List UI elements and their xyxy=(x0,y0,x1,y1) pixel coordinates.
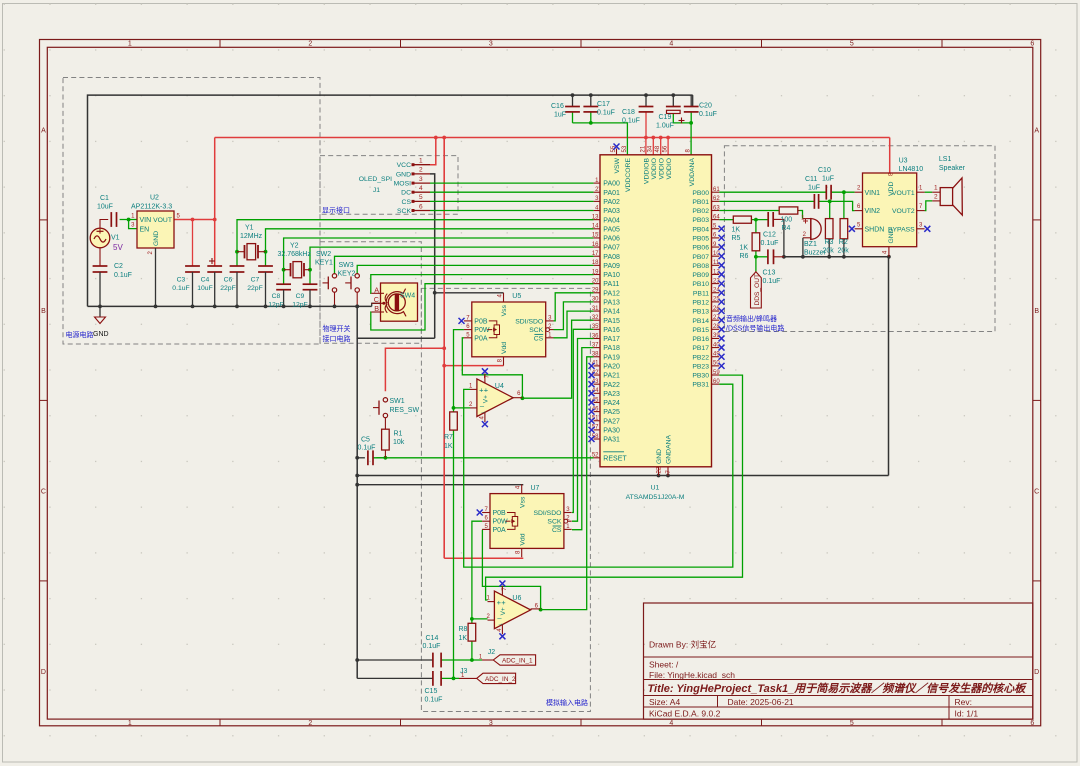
svg-text:PA09: PA09 xyxy=(603,263,620,270)
wire U5 P0W to U4 inverting and R7 xyxy=(454,330,471,408)
svg-text:PA04: PA04 xyxy=(603,217,620,224)
svg-text:PA15: PA15 xyxy=(603,318,620,325)
svg-text:C: C xyxy=(1034,489,1039,496)
wire GND drop from C12 xyxy=(783,219,785,256)
svg-text:+: + xyxy=(484,386,489,395)
svg-text:C: C xyxy=(374,295,379,304)
svg-text:Date: 2025-06-21: Date: 2025-06-21 xyxy=(728,697,794,707)
junction GND at C2 xyxy=(98,305,102,309)
junction decoupling C20 xyxy=(689,121,693,125)
svg-text:SDI/SDO: SDI/SDO xyxy=(515,318,543,325)
svg-text:File: YingHe.kicad_sch: File: YingHe.kicad_sch xyxy=(649,670,735,680)
svg-text:PA20: PA20 xyxy=(603,364,620,371)
svg-text:6: 6 xyxy=(1030,720,1034,727)
svg-text:PB15: PB15 xyxy=(692,327,709,334)
capacitor C10 xyxy=(818,167,834,200)
svg-text:RES_SW: RES_SW xyxy=(390,407,420,414)
wire GND vertical from J1 pin 2 xyxy=(430,174,435,338)
capacitor C14 xyxy=(423,635,442,667)
svg-text:B: B xyxy=(374,304,379,313)
svg-text:1: 1 xyxy=(128,41,132,48)
svg-text:VDD: VDD xyxy=(888,182,895,196)
wire EN branch xyxy=(129,220,137,229)
svg-text:R7: R7 xyxy=(444,434,453,441)
svg-text:J2: J2 xyxy=(488,649,496,656)
wire U7 P0A to U6 output xyxy=(482,530,540,610)
svg-text:VIN1: VIN1 xyxy=(865,190,881,197)
capacitor C18 xyxy=(622,107,653,125)
junction GND at MCU GND pin xyxy=(657,474,661,478)
svg-text:C15: C15 xyxy=(425,688,438,695)
wire U6 output to PA19 xyxy=(539,357,594,610)
wire +3V3 stubs to MCU VDDIO pins xyxy=(644,136,670,155)
svg-text:R1: R1 xyxy=(394,431,403,438)
svg-text:D: D xyxy=(1034,669,1039,676)
svg-text:PA17: PA17 xyxy=(603,336,620,343)
svg-text:R5: R5 xyxy=(732,235,741,242)
resistor R6 1K vertical xyxy=(740,233,760,260)
wire XIN Y1 left to PA04 xyxy=(237,220,594,266)
svg-text:LN4810: LN4810 xyxy=(899,166,924,173)
wire U5 P0A to U4 output xyxy=(462,338,522,398)
svg-text:19: 19 xyxy=(592,269,599,275)
junction GND at C12 drop xyxy=(782,255,786,259)
wire GND to C15 xyxy=(357,677,433,679)
junction DDS node at R5 R6 xyxy=(754,218,758,222)
svg-text:29: 29 xyxy=(592,288,599,294)
svg-text:DC: DC xyxy=(401,190,411,197)
svg-text:VDDIO: VDDIO xyxy=(651,158,658,180)
svg-text:32: 32 xyxy=(592,315,599,321)
wire GND jog to SW4 pin C xyxy=(372,303,381,306)
svg-text:ADC_IN_1: ADC_IN_1 xyxy=(502,658,533,665)
svg-text:0.1uF: 0.1uF xyxy=(597,110,615,117)
svg-text:1: 1 xyxy=(128,720,132,727)
svg-text:R4: R4 xyxy=(782,225,791,232)
junction SW3 GND xyxy=(355,305,359,309)
svg-text:P0A: P0A xyxy=(493,527,507,534)
svg-text:PB01: PB01 xyxy=(692,199,709,206)
svg-text:AP2112K-3.3: AP2112K-3.3 xyxy=(131,204,172,211)
wire +3V3 rail left vertical to U2 VOUT xyxy=(214,138,216,267)
junction GND at U5 Vss branch xyxy=(433,291,437,295)
frame row ticks and labels xyxy=(40,128,1041,677)
svg-text:12pF: 12pF xyxy=(292,302,308,309)
wire VOUT2 to speaker xyxy=(925,201,933,211)
svg-text:SW4: SW4 xyxy=(400,293,415,300)
svg-text:PA10: PA10 xyxy=(603,272,620,279)
wire GND switches down to main rail xyxy=(357,306,435,338)
svg-text:PA00: PA00 xyxy=(603,181,620,188)
svg-text:32.768kHz: 32.768kHz xyxy=(278,251,312,258)
svg-text:Drawn By: 刘宝亿: Drawn By: 刘宝亿 xyxy=(649,640,716,650)
digital potentiometer U7 xyxy=(477,484,572,557)
svg-text:2: 2 xyxy=(308,41,312,48)
svg-text:C8: C8 xyxy=(272,293,281,300)
svg-text:GND: GND xyxy=(656,449,663,464)
junction GND x357 at y484 xyxy=(355,483,359,487)
wire GND branch to U7 Vss xyxy=(357,484,523,486)
svg-text:38: 38 xyxy=(592,352,599,358)
junction GND x357 at C14 line xyxy=(355,658,359,662)
svg-text:34: 34 xyxy=(648,145,654,152)
svg-text:35: 35 xyxy=(592,324,599,330)
wire +3V3 drop to J1 VCC xyxy=(430,138,436,165)
svg-text:SCK: SCK xyxy=(529,327,543,334)
svg-text:1: 1 xyxy=(934,185,938,192)
wire U6 output stub xyxy=(531,608,541,610)
svg-text:3: 3 xyxy=(419,176,423,183)
svg-text:5: 5 xyxy=(850,41,854,48)
note label 音频输出/蜂鸣器/DSS信号输出电路 xyxy=(726,314,784,333)
C19 plus sign xyxy=(679,118,685,124)
wire GND left vertical rail x=357 xyxy=(356,338,358,678)
svg-text:60: 60 xyxy=(713,379,720,385)
svg-text:C4: C4 xyxy=(201,277,210,284)
svg-text:A: A xyxy=(41,128,46,135)
svg-text:C17: C17 xyxy=(597,101,610,108)
wire C10 to U3 VIN1 xyxy=(831,191,855,193)
wire +3V3 branch to SW1 xyxy=(385,348,444,391)
svg-text:DDS_OUT: DDS_OUT xyxy=(754,274,761,306)
svg-text:12MHz: 12MHz xyxy=(240,233,263,240)
svg-text:ADC_IN_2: ADC_IN_2 xyxy=(485,676,516,683)
svg-text:VIN2: VIN2 xyxy=(865,208,881,215)
svg-text:2: 2 xyxy=(934,193,938,200)
MCU U1 ATSAMD51J20A-M body xyxy=(600,155,712,467)
svg-text:P0W: P0W xyxy=(493,519,509,526)
wire SW2 to PA08 xyxy=(335,256,594,273)
svg-text:BZ1: BZ1 xyxy=(804,241,817,248)
capacitor C5 xyxy=(357,437,375,466)
svg-text:PB00: PB00 xyxy=(692,190,709,197)
svg-text:J1: J1 xyxy=(373,187,380,194)
junction +3V3 rail top xyxy=(442,136,446,140)
junction DDS_OUT node xyxy=(754,255,758,259)
svg-text:22pF: 22pF xyxy=(220,285,236,292)
junction GND at MCU GNDANA pin xyxy=(666,474,670,478)
capacitor C9 xyxy=(292,284,317,308)
wire +3V3 branch to U5 Vdd xyxy=(444,365,503,367)
svg-text:U6: U6 xyxy=(512,595,521,602)
svg-text:PB13: PB13 xyxy=(692,309,709,316)
svg-text:PB31: PB31 xyxy=(692,382,709,389)
wire V1 to C1 xyxy=(100,220,108,229)
svg-text:模拟输入电路: 模拟输入电路 xyxy=(546,698,588,707)
svg-text:3: 3 xyxy=(489,41,493,48)
junction U6 pin2 node xyxy=(470,617,474,621)
svg-text:1.0uF: 1.0uF xyxy=(656,123,674,130)
wire C3 top stub xyxy=(192,220,194,267)
capacitor C12 xyxy=(761,212,779,247)
svg-text:15: 15 xyxy=(592,233,599,239)
svg-text:10uF: 10uF xyxy=(197,285,213,292)
rotary switch SW4 xyxy=(371,283,417,321)
svg-text:4: 4 xyxy=(669,720,673,727)
svg-text:PA16: PA16 xyxy=(603,327,620,334)
svg-text:PB11: PB11 xyxy=(693,290,709,297)
svg-text:C13: C13 xyxy=(763,270,776,277)
svg-text:电源电路: 电源电路 xyxy=(66,330,94,339)
svg-text:2: 2 xyxy=(419,167,423,174)
svg-text:0.1uF: 0.1uF xyxy=(172,285,189,292)
wire C1 to U2 VIN xyxy=(120,219,137,221)
svg-text:SCK: SCK xyxy=(547,519,561,526)
svg-text:21: 21 xyxy=(640,145,646,152)
junction RESET at R1 xyxy=(384,456,388,460)
junction U4 output xyxy=(521,396,525,400)
svg-text:CS: CS xyxy=(534,335,544,342)
svg-text:SCK: SCK xyxy=(397,208,411,215)
svg-text:PA21: PA21 xyxy=(603,373,620,380)
svg-text:R6: R6 xyxy=(740,253,749,260)
svg-text:接口电路: 接口电路 xyxy=(323,334,351,343)
svg-text:0.1uF: 0.1uF xyxy=(763,278,781,285)
svg-text:2: 2 xyxy=(308,720,312,727)
svg-text:PB05: PB05 xyxy=(692,236,709,243)
svg-text:C16: C16 xyxy=(551,103,564,110)
wire U7 SCK to PA17 xyxy=(572,339,594,522)
svg-text:10uF: 10uF xyxy=(97,204,113,211)
capacitor C16 xyxy=(551,103,580,119)
capacitor C2 xyxy=(93,263,132,306)
wire Y2 right to PA07 xyxy=(310,247,594,284)
crystal Y1 12MHz xyxy=(237,225,266,260)
svg-text:VDDIO: VDDIO xyxy=(658,158,665,180)
svg-text:PB22: PB22 xyxy=(692,354,709,361)
wire PB30 to U6 noninverting xyxy=(486,375,743,600)
U1 right pins PB00-PB31 xyxy=(692,187,724,389)
capacitor C1 xyxy=(97,195,117,227)
frame column ticks and labels xyxy=(128,40,1035,727)
svg-text:显示接口: 显示接口 xyxy=(322,206,350,215)
GND symbol power area xyxy=(93,306,109,338)
wire C11 to U3 VIN2 xyxy=(819,201,855,210)
wire GND horizontal to MCU GND pins xyxy=(357,475,888,477)
junction GND at R3 xyxy=(827,255,831,259)
svg-text:C6: C6 xyxy=(224,277,233,284)
junction VIN1 R2 tap xyxy=(842,190,846,194)
svg-text:C12: C12 xyxy=(763,232,776,239)
wire ADC_IN_2 node xyxy=(441,677,459,679)
svg-text:PA02: PA02 xyxy=(603,199,620,206)
svg-text:SDI/SDO: SDI/SDO xyxy=(533,510,561,517)
svg-text:B: B xyxy=(41,308,46,315)
svg-text:V1: V1 xyxy=(111,235,120,242)
resistor R1 10k xyxy=(382,429,405,458)
svg-text:MOSI: MOSI xyxy=(394,181,411,188)
svg-text:C19: C19 xyxy=(659,114,672,121)
svg-text:C1: C1 xyxy=(100,195,109,202)
wire R5 to node xyxy=(751,219,768,221)
svg-text:Vss: Vss xyxy=(519,496,526,508)
svg-text:16: 16 xyxy=(592,242,599,248)
junction +3V3 at U5 Vdd branch xyxy=(442,364,446,368)
wire R6 bottom to C13 and DDS_OUT xyxy=(756,251,768,272)
svg-text:30: 30 xyxy=(592,297,599,303)
regulator U2 AP2112K-3.3 xyxy=(131,195,181,307)
svg-text:PB30: PB30 xyxy=(692,373,709,380)
svg-text:64: 64 xyxy=(713,214,720,220)
wire R6 top stub xyxy=(755,220,757,233)
wire GND stubs to C16-C20 tops xyxy=(573,95,692,106)
svg-text:SW2: SW2 xyxy=(316,251,331,258)
svg-text:C9: C9 xyxy=(296,293,305,300)
svg-text:B: B xyxy=(1034,308,1039,315)
svg-text:22pF: 22pF xyxy=(247,285,263,292)
svg-text:0.1uF: 0.1uF xyxy=(423,643,441,650)
svg-text:Y1: Y1 xyxy=(245,225,254,232)
svg-text:A: A xyxy=(1034,128,1039,135)
wire RESET net C5 R1 to MCU xyxy=(373,457,594,459)
amplifier U3 LN4810 xyxy=(849,158,930,257)
svg-text:Vss: Vss xyxy=(501,304,508,316)
svg-text:PA13: PA13 xyxy=(603,300,620,307)
svg-text:PB23: PB23 xyxy=(692,363,709,370)
svg-text:0.1uF: 0.1uF xyxy=(358,445,376,452)
svg-text:1uF: 1uF xyxy=(554,112,566,119)
wire XOUT Y1 right to PA05 xyxy=(266,229,594,266)
wire +3V3 vertical rail x=444 xyxy=(443,138,445,559)
junction U6 output xyxy=(539,608,543,612)
svg-text:0.1uF: 0.1uF xyxy=(425,697,443,704)
wire J1 DC to PA01 xyxy=(430,191,594,193)
svg-text:D: D xyxy=(41,669,46,676)
svg-text:PA22: PA22 xyxy=(603,382,620,389)
capacitor C6 xyxy=(220,266,244,306)
junction Y2 right xyxy=(308,268,312,272)
capacitor C19 polarized xyxy=(656,107,681,130)
svg-text:1uF: 1uF xyxy=(808,185,820,192)
wire U7 P0W to U6 inverting and R8 xyxy=(472,521,488,619)
svg-text:6: 6 xyxy=(1030,41,1034,48)
svg-text:1K: 1K xyxy=(444,443,453,450)
svg-text:PB06: PB06 xyxy=(692,245,709,252)
wire GND from C20 corner xyxy=(692,95,694,106)
junction ADC_IN_2 xyxy=(452,677,456,681)
wire PB03 to R5 xyxy=(719,219,733,221)
junction ADC_IN_1 xyxy=(470,658,474,662)
svg-text:RESET: RESET xyxy=(603,455,627,462)
svg-text:C11: C11 xyxy=(805,176,817,183)
U1 RESET pin xyxy=(592,452,628,463)
dashed box power supply region xyxy=(63,78,320,345)
svg-text:12pF: 12pF xyxy=(268,302,284,309)
junction VOUT at C4 xyxy=(213,218,217,222)
svg-text:Rev:: Rev: xyxy=(955,697,972,707)
svg-text:PB03: PB03 xyxy=(692,217,709,224)
svg-text:0.1uF: 0.1uF xyxy=(114,272,132,279)
svg-text:Id: 1/1: Id: 1/1 xyxy=(955,708,979,718)
resistor R7 1K xyxy=(444,412,457,450)
svg-text:PA19: PA19 xyxy=(603,354,620,361)
svg-text:VIN: VIN xyxy=(140,217,152,224)
svg-text:0.1uF: 0.1uF xyxy=(622,118,640,125)
wire GND buzzer pin2 drop xyxy=(803,238,811,257)
wire V1 to C2 xyxy=(99,248,101,266)
svg-text:U2: U2 xyxy=(150,195,159,202)
svg-text:U4: U4 xyxy=(495,383,504,390)
wire VDDCORE decoupling green xyxy=(573,123,628,155)
wire C17 bottom stub xyxy=(590,112,592,123)
wire R2 bottom stub xyxy=(843,239,845,257)
svg-text:5V: 5V xyxy=(113,243,123,252)
capacitor C15 xyxy=(425,671,443,704)
junction GND at U2 xyxy=(154,305,158,309)
wire GND audio area horizontal xyxy=(784,256,889,258)
svg-text:PB09: PB09 xyxy=(692,272,709,279)
capacitor C13 xyxy=(763,249,781,285)
wire C13 right to GND xyxy=(774,256,784,258)
resistor R3 20k xyxy=(823,219,835,255)
junction GND at buzzer drop xyxy=(801,255,805,259)
svg-text:C14: C14 xyxy=(426,635,439,642)
U1 reference and value xyxy=(626,485,685,502)
wire R3 top from VIN2 line xyxy=(829,201,831,218)
buzzer BZ1 xyxy=(801,216,826,257)
svg-text:OLED_SPI: OLED_SPI xyxy=(359,176,392,183)
capacitor C20 xyxy=(684,103,717,119)
wire U5 SCK to PA13 xyxy=(554,302,594,330)
svg-text:GNDANA: GNDANA xyxy=(666,434,673,464)
svg-text:PB04: PB04 xyxy=(692,226,709,233)
svg-text:U5: U5 xyxy=(512,293,521,300)
svg-text:CS: CS xyxy=(552,527,562,534)
svg-text:PB08: PB08 xyxy=(692,263,709,270)
wire J1 SCK to PA03 xyxy=(430,210,594,212)
svg-text:PA23: PA23 xyxy=(603,391,620,398)
svg-text:Title: YingHeProject_Task1_用于简: Title: YingHeProject_Task1_用于简易示波器／频谱仪／信… xyxy=(648,682,1028,695)
wire R7 top stub xyxy=(453,408,455,412)
svg-text:37: 37 xyxy=(592,342,599,348)
svg-text:C3: C3 xyxy=(177,277,186,284)
svg-text:C2: C2 xyxy=(114,263,123,270)
svg-text:PA24: PA24 xyxy=(603,400,620,407)
junction VOUT at C3 xyxy=(191,218,195,222)
wire U5 CS to PA14 xyxy=(554,311,594,338)
svg-text:C: C xyxy=(41,489,46,496)
wire +3V3 rail to U3 VDD xyxy=(889,138,891,174)
svg-text:SW3: SW3 xyxy=(339,262,354,269)
junction GND x357 at y475 xyxy=(355,474,359,478)
svg-text:PB02: PB02 xyxy=(692,208,709,215)
wire R2 top from VIN1 line xyxy=(843,192,845,218)
svg-text:17: 17 xyxy=(592,251,599,257)
wire SW4 A to PA10 xyxy=(371,275,594,294)
svg-text:SW1: SW1 xyxy=(390,398,405,405)
svg-text:0.1uF: 0.1uF xyxy=(761,240,779,247)
svg-text:1K: 1K xyxy=(740,245,749,252)
svg-text:PB10: PB10 xyxy=(692,281,709,288)
svg-text:53: 53 xyxy=(622,145,628,152)
svg-text:P0B: P0B xyxy=(493,510,507,517)
connector J2 ADC_IN_1 xyxy=(479,649,536,665)
junction VIN EN node xyxy=(127,218,131,222)
svg-text:VOUT: VOUT xyxy=(153,217,172,224)
wire R7 bottom to ADC_IN_2 node xyxy=(453,430,455,678)
svg-text:PA31: PA31 xyxy=(603,437,620,444)
junction GND at SW4 drop xyxy=(355,305,359,309)
wire +3V3 main rail horizontal xyxy=(215,137,890,139)
svg-text:PA08: PA08 xyxy=(603,254,620,261)
junction VIN2 R3 tap xyxy=(828,200,832,204)
svg-text:/DSS信号输出电路: /DSS信号输出电路 xyxy=(726,324,784,333)
svg-text:PB16: PB16 xyxy=(692,336,709,343)
svg-text:U7: U7 xyxy=(531,485,540,492)
junction Y2 left xyxy=(282,268,286,272)
svg-text:GND: GND xyxy=(396,171,411,178)
dashed box switch region xyxy=(320,242,421,344)
